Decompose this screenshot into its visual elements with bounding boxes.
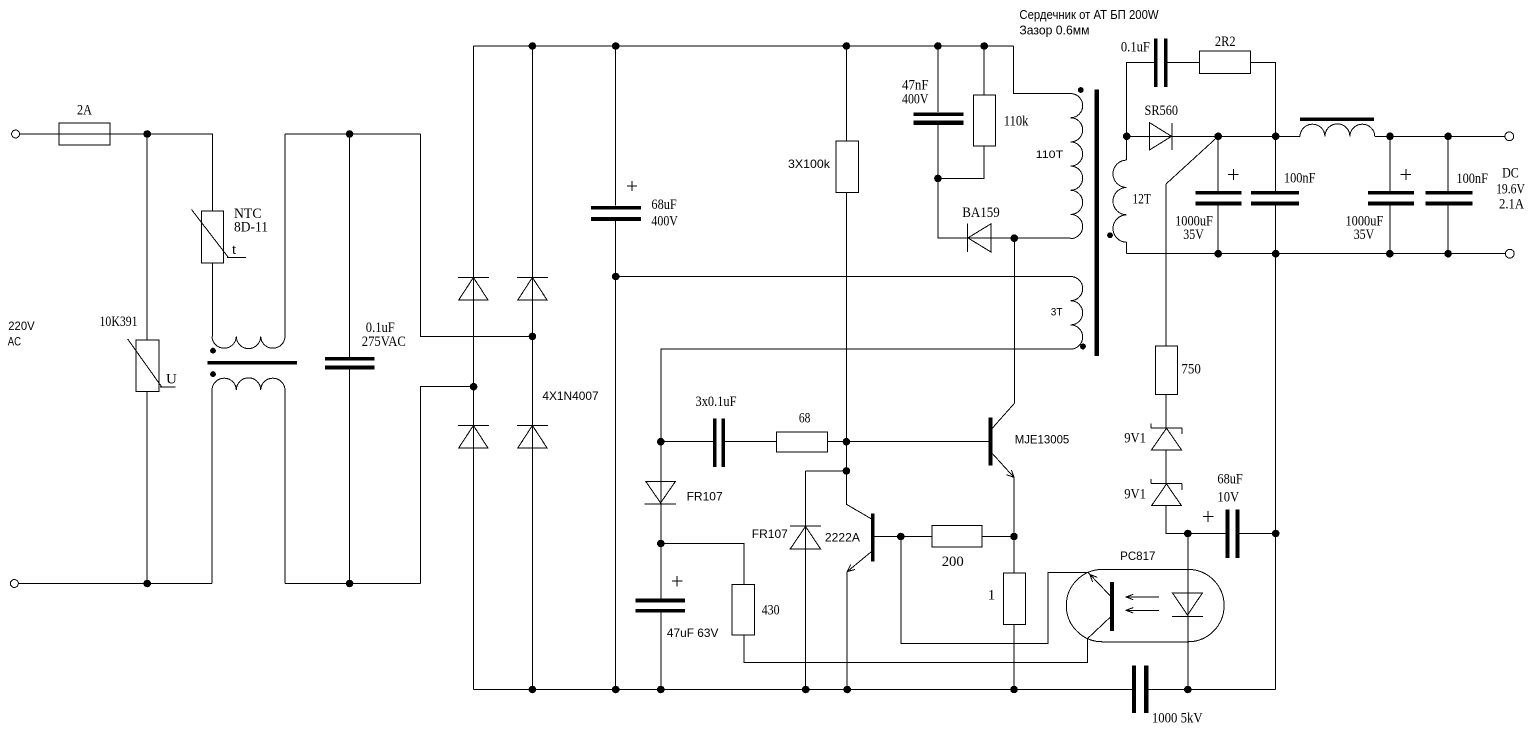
svg-text:9V1: 9V1 (1124, 431, 1146, 447)
wire Q1 emitter down (1013, 477, 1015, 536)
wire FR107-2 column (805, 471, 807, 690)
wire bridge right column (531, 46, 533, 690)
common-mode choke L1 upper winding (212, 336, 285, 348)
svg-text:SR560: SR560 (1145, 103, 1179, 119)
plus sign C10 (1401, 174, 1412, 176)
resistor R2 110k column (983, 46, 985, 95)
resistor R4 200 (932, 526, 982, 547)
svg-text:FR107: FR107 (752, 527, 788, 541)
node junction C5 right (1272, 530, 1279, 537)
node junction Q2 emitter at bus (844, 686, 851, 693)
node junction bridge right bottom (529, 686, 536, 693)
wire N terminal to choke (18, 583, 212, 585)
wire Q2 base to R4 (875, 536, 932, 538)
svg-text:35V: 35V (1183, 227, 1204, 243)
svg-text:47uF 63V: 47uF 63V (667, 626, 719, 640)
svg-text:110T: 110T (1036, 149, 1064, 161)
svg-text:430: 430 (762, 603, 780, 619)
transformer T1 core (1094, 90, 1099, 356)
capacitor C11 100nF (1447, 136, 1449, 191)
svg-text:3X100k: 3X100k (788, 157, 831, 171)
svg-text:DC: DC (1502, 166, 1519, 182)
wire choke lower right down (284, 390, 286, 584)
wire 3T top to ground (616, 276, 1071, 278)
svg-text:400V: 400V (651, 213, 678, 229)
capacitor C7 0.1uF (1154, 38, 1157, 87)
wire AC1 top segment (285, 133, 421, 135)
output terminal + (1505, 132, 1514, 141)
node junction varistor bottom (144, 580, 151, 587)
svg-text:4X1N4007: 4X1N4007 (542, 389, 599, 403)
svg-text:3T: 3T (1051, 306, 1063, 318)
node junction R1 top bus (843, 43, 850, 50)
inductor L2 core (1300, 118, 1374, 121)
svg-text:PC817: PC817 (1120, 549, 1156, 563)
svg-text:110k: 110k (1004, 114, 1029, 130)
wire base node down to Q2 collector (845, 442, 847, 505)
transistor Q2 2222A (871, 514, 874, 562)
node junction R1 bottom / base (843, 438, 850, 445)
node junction C11 top (1445, 133, 1452, 140)
wire choke lower left down (211, 390, 213, 584)
PC817 light arrow 2 (1126, 609, 1159, 611)
svg-text:19.6V: 19.6V (1496, 182, 1525, 198)
svg-text:AC: AC (8, 335, 22, 349)
node junction LED cathode at bus (1185, 686, 1192, 693)
wire L terminal to fuse to NTC column (20, 133, 213, 135)
phase dot 3T bottom (1080, 344, 1086, 350)
svg-text:U: U (166, 372, 177, 388)
wire base drive to C3 (661, 441, 713, 443)
svg-text:2R2: 2R2 (1215, 34, 1236, 50)
capacitor C5 68uF 10V (1226, 509, 1230, 558)
capacitor C4 47uF 63V (636, 598, 686, 602)
wire bottom ground bus left part (474, 689, 1132, 691)
svg-text:2222A: 2222A (825, 530, 860, 544)
svg-text:100nF: 100nF (1284, 170, 1316, 186)
wire output rail bottom (1127, 253, 1506, 255)
node junction AC2 bridge (470, 383, 477, 390)
svg-text:Сердечник от АТ БП 200W: Сердечник от АТ БП 200W (1019, 7, 1159, 22)
wire C7 to R8 (1167, 61, 1199, 63)
diode D4 1N4007 lower-right (517, 425, 548, 427)
wire snubber node to BA159 (938, 178, 1071, 238)
node junction FR107-2 at bus (802, 686, 809, 693)
transformer T1 primary winding 110T (1071, 94, 1083, 239)
node junction C8 top (1215, 133, 1222, 140)
PC817 phototransistor (1110, 582, 1114, 631)
wire C3 to R3 (725, 441, 777, 443)
node junction C9 top (1272, 133, 1279, 140)
capacitor C3 3x0.1uF (713, 419, 716, 467)
wire top bus +310V (474, 45, 1014, 47)
node junction C11 bottom (1445, 250, 1452, 257)
wire NTC to choke (212, 263, 214, 336)
transformer T1 secondary 12T (1126, 136, 1128, 160)
wire R6 to PC817 emitter (744, 635, 1087, 663)
plus sign C5 (1203, 516, 1214, 518)
svg-text:750: 750 (1181, 362, 1201, 378)
svg-text:10K391: 10K391 (100, 314, 138, 330)
wire secondary ground column (1275, 254, 1277, 690)
svg-text:BA159: BA159 (962, 205, 1000, 221)
node junction fuse/varistor (144, 131, 151, 138)
node junction AC1 bridge (529, 333, 536, 340)
svg-text:12T: 12T (1132, 192, 1151, 208)
common-mode choke core (208, 361, 298, 365)
wire varistor to bottom AC (146, 391, 148, 583)
wire bottom AC segment 2 (285, 583, 421, 585)
wire NTC column top (212, 134, 214, 211)
svg-text:10V: 10V (1217, 489, 1239, 505)
resistor R6 430 (732, 584, 754, 634)
svg-text:220V: 220V (8, 319, 34, 333)
phase dot primary top (1078, 87, 1084, 93)
wire 430 branch (661, 544, 744, 585)
transistor Q1 MJE13005 (989, 418, 993, 466)
resistor R8 2R2 (1199, 51, 1250, 73)
diode D3 1N4007 lower-left (458, 425, 489, 427)
capacitor C2 47nF 400V column (937, 46, 939, 112)
node junction emitter / R5 (1011, 533, 1018, 540)
input terminal L (phase) (12, 130, 20, 138)
diode D5 BA159 (967, 224, 969, 253)
diode D7 FR107 column (660, 442, 662, 599)
node junction C1 bottom / 3T ground wire (612, 273, 619, 280)
svg-text:2A: 2A (77, 103, 92, 119)
resistor R1 3X100k column (845, 46, 847, 141)
node junction Q2 base / PC817 branch (898, 533, 905, 540)
node junction C10 top (1387, 133, 1394, 140)
zener ZD1 9V1 (1151, 427, 1182, 429)
node junction C10 bottom (1387, 250, 1394, 257)
svg-text:8D-11: 8D-11 (234, 220, 268, 236)
wire AC1 to bridge right column (421, 134, 533, 336)
node junction bridge right top (529, 43, 536, 50)
capacitor C10 1000uF 35V (1389, 136, 1391, 191)
plus sign C4 (672, 580, 683, 582)
capacitor C9 100nF (1275, 136, 1277, 191)
svg-text:68uF: 68uF (651, 197, 676, 213)
svg-text:68: 68 (799, 411, 811, 427)
wire feedback diagonal from output (1166, 136, 1218, 184)
wire R4 to emitter node (982, 536, 1014, 538)
svg-text:9V1: 9V1 (1124, 487, 1146, 503)
diode D6 FR107 (790, 525, 821, 527)
wire Q2 emitter to bus (846, 572, 848, 690)
plus sign C1 (627, 185, 637, 187)
wire R8 to output node (1250, 62, 1275, 136)
node junction LED anode (1185, 530, 1192, 537)
svg-text:FR107: FR107 (687, 490, 723, 504)
svg-text:0.1uF: 0.1uF (1121, 40, 1150, 56)
wire zener to LED node (1166, 506, 1226, 534)
wire varistor column (146, 134, 148, 340)
capacitor CX 0.1uF 275VAC column (349, 134, 351, 357)
node junction C2 top bus (935, 43, 942, 50)
capacitor C1 68uF 400V column (615, 46, 617, 206)
wire top bus corner to primary top (1014, 46, 1071, 94)
diode D1 1N4007 upper-left (458, 277, 489, 279)
svg-text:35V: 35V (1354, 227, 1375, 243)
thermistor NTC 8D-11 (202, 211, 224, 263)
svg-text:MJE13005: MJE13005 (1015, 433, 1070, 447)
node junction X-cap bottom (346, 580, 353, 587)
diode D8 SR560 (1149, 123, 1171, 151)
wire secondary snubber left (1127, 62, 1154, 136)
svg-text:3x0.1uF: 3x0.1uF (696, 394, 737, 410)
resistor R7 750 (1165, 184, 1167, 346)
node junction C1 top bus (612, 43, 619, 50)
choke phase dot lower (210, 371, 216, 377)
resistor R3 68 (777, 432, 828, 452)
PC817 light arrow 1 (1126, 596, 1159, 598)
wire bridge left column (473, 46, 475, 690)
inductor L2 winding (1300, 124, 1375, 136)
svg-text:275VAC: 275VAC (362, 334, 406, 350)
svg-text:100nF: 100nF (1456, 171, 1488, 187)
PC817 LED (1187, 534, 1189, 690)
svg-text:1: 1 (988, 587, 996, 603)
wire R3 to Q1 base (828, 441, 989, 443)
node junction primary bottom / collector (1011, 235, 1018, 242)
wire to FR107-2 column (806, 470, 847, 472)
svg-text:1000 5kV: 1000 5kV (1152, 711, 1203, 727)
input terminal N (neutral) (10, 580, 18, 588)
svg-text:68uF: 68uF (1217, 472, 1242, 488)
wire 3T bottom to base drive column (661, 349, 1071, 442)
wire AC2 to bridge left column (420, 387, 473, 584)
node junction C4 at bus (658, 686, 665, 693)
varistor RV1 10K391 (136, 340, 159, 391)
wire output rail after L2 (1375, 135, 1506, 137)
common-mode choke L1 lower winding (212, 378, 285, 390)
node junction snubber (935, 175, 942, 182)
node junction C9 bottom (1272, 250, 1279, 257)
node junction SR560 anode (1123, 133, 1130, 140)
optocoupler U1 PC817 body (1066, 569, 1224, 641)
resistor R5 1 (1013, 537, 1015, 574)
node junction base drive left (658, 438, 665, 445)
capacitor C6 1000 5kV (1132, 666, 1136, 713)
node junction R2 top bus (981, 43, 988, 50)
node junction 430 branch (658, 540, 665, 547)
phase dot 12T (1107, 232, 1113, 238)
output terminal - (1505, 249, 1514, 258)
node junction C8 bottom (1215, 250, 1222, 257)
zener ZD2 9V1 (1151, 483, 1182, 485)
node junction ground column at bus (612, 686, 619, 693)
plus sign C8 (1228, 174, 1239, 176)
node junction R5 at bus (1011, 686, 1018, 693)
fuse F1 2A (59, 123, 110, 145)
wire bottom bus right part (1149, 689, 1276, 691)
transformer T1 base winding 3T (1071, 277, 1083, 350)
svg-text:2.1A: 2.1A (1499, 196, 1524, 212)
node junction FR107 branch (843, 468, 850, 475)
capacitor C8 1000uF 35V (1217, 136, 1219, 191)
wire Q2 base node to PC817 collector (901, 537, 1088, 644)
diode D2 1N4007 upper-right (517, 277, 548, 279)
svg-text:Зазор 0.6мм: Зазор 0.6мм (1019, 22, 1089, 37)
wire collector column (1013, 238, 1015, 403)
choke phase dot upper (210, 348, 216, 354)
node junction X-cap top (346, 131, 353, 138)
wire choke upper right up to AC1 (284, 134, 286, 336)
wire output rail top (1127, 135, 1300, 137)
svg-text:400V: 400V (902, 92, 929, 108)
svg-text:200: 200 (942, 554, 964, 570)
